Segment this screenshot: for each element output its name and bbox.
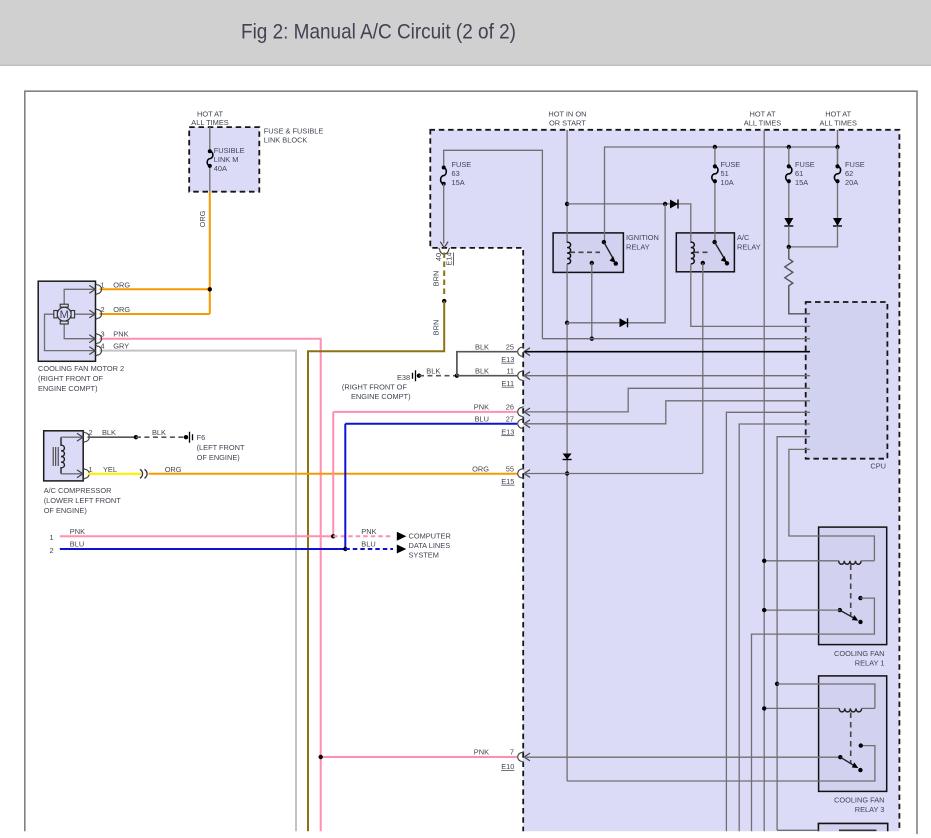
junction diode row — [663, 202, 667, 206]
ignition relay box — [553, 233, 623, 273]
svg-text:OF ENGINE): OF ENGINE) — [44, 506, 87, 515]
svg-text:51: 51 — [721, 169, 729, 178]
svg-text:COOLING FAN: COOLING FAN — [834, 796, 885, 805]
wire GRY pin4 — [100, 351, 297, 832]
svg-text:ORG: ORG — [113, 280, 130, 289]
arrow PNK — [397, 532, 407, 541]
wire relay3 contact bottom — [567, 746, 875, 781]
svg-text:HOT AT: HOT AT — [825, 110, 851, 119]
relay3 switch — [838, 755, 842, 759]
junction PNK 7 — [319, 755, 323, 759]
header bar — [0, 0, 931, 66]
wire PNK7 inside to relay3 — [525, 756, 841, 758]
svg-text:FUSIBLE: FUSIBLE — [214, 146, 245, 155]
svg-text:20A: 20A — [845, 178, 858, 187]
svg-text:E13: E13 — [501, 427, 514, 436]
relay3 coil row — [764, 707, 839, 709]
junction BRN — [442, 299, 446, 303]
junction ORG/diode — [565, 471, 569, 475]
svg-text:10A: 10A — [721, 178, 734, 187]
relay3 link dashed — [850, 713, 852, 765]
wire HOT AT #1 long vertical — [763, 130, 765, 832]
diode D2 — [620, 318, 628, 327]
junction BLK — [134, 435, 138, 439]
svg-text:55: 55 — [506, 464, 514, 473]
svg-text:E38: E38 — [397, 373, 410, 382]
power distribution box (big lavender) fill — [430, 130, 899, 832]
svg-text:2: 2 — [89, 428, 93, 437]
svg-text:ALL TIMES: ALL TIMES — [191, 118, 228, 127]
cooling fan relay (bottom, cut) box — [818, 823, 887, 831]
svg-text:LINK BLOCK: LINK BLOCK — [264, 135, 308, 144]
power distribution box dashed border — [430, 129, 900, 831]
svg-text:ENGINE COMPT): ENGINE COMPT) — [351, 392, 411, 401]
junction resistor top — [787, 245, 791, 249]
cooling fan relay 3 box — [819, 676, 887, 792]
svg-text:26: 26 — [506, 403, 514, 412]
svg-text:COMPUTER: COMPUTER — [409, 531, 451, 540]
wire BLU data line — [60, 548, 346, 550]
motor pin connectors — [89, 284, 101, 295]
junction PNK — [331, 534, 335, 538]
svg-text:M: M — [60, 309, 69, 321]
ignition relay link dashed — [570, 251, 600, 253]
wire PNK 7 — [321, 756, 517, 758]
wire fuse 63 to E14 — [443, 184, 445, 244]
svg-text:BLU: BLU — [361, 540, 375, 549]
wire BLU vertical from connector 27 — [344, 424, 346, 549]
svg-text:15A: 15A — [795, 178, 808, 187]
diode D5 — [563, 454, 572, 460]
svg-text:ORG: ORG — [113, 305, 130, 314]
relay (bottom) frame wire — [777, 829, 818, 831]
wire fuse63 row to CPU — [542, 338, 810, 340]
svg-text:15A: 15A — [452, 178, 465, 187]
svg-text:40A: 40A — [214, 164, 227, 173]
fuse 63 symbol — [441, 168, 447, 184]
svg-text:(LOWER LEFT FRONT: (LOWER LEFT FRONT — [44, 496, 122, 505]
wire BLK dashed — [136, 436, 184, 438]
wire CPU pin8 down — [726, 412, 810, 831]
svg-text:1: 1 — [50, 533, 54, 542]
compressor internal wires — [61, 437, 83, 474]
wire YEL — [88, 473, 142, 475]
diode row y323 — [565, 321, 569, 325]
svg-text:E13: E13 — [501, 355, 514, 364]
wire into fusible link — [209, 127, 211, 192]
motor symbol M — [57, 307, 71, 321]
wire CPU pin10 down (relay3 frame) — [777, 437, 810, 831]
svg-text:BRN: BRN — [432, 320, 441, 336]
relay3 frame — [775, 682, 779, 686]
fuse 63 loop wire — [444, 150, 543, 338]
svg-text:LINK M: LINK M — [214, 155, 239, 164]
wire hot-at row y147 — [605, 147, 838, 242]
relay1 contact output — [752, 598, 875, 831]
svg-text:PNK: PNK — [70, 527, 85, 536]
wire BLK 25 outside — [457, 352, 517, 376]
svg-text:IGNITION: IGNITION — [626, 233, 659, 242]
motor internal wires — [45, 289, 96, 350]
fusible link M symbol — [207, 151, 213, 166]
cooling fan motor 2 box — [38, 281, 95, 361]
compressor pin connectors — [77, 432, 89, 443]
wire HOT AT #2 drop — [837, 130, 839, 164]
svg-text:25: 25 — [506, 343, 514, 352]
svg-text:FUSE & FUSIBLE: FUSE & FUSIBLE — [264, 126, 324, 135]
inline connector YEL/ORG — [140, 469, 147, 478]
svg-text:RELAY: RELAY — [737, 243, 761, 252]
wire relay feed row y204 — [567, 204, 691, 243]
svg-text:1: 1 — [89, 465, 93, 474]
diode D1 — [670, 200, 678, 209]
svg-text:RELAY: RELAY — [626, 243, 650, 252]
wire BRN dashed segment — [443, 253, 445, 296]
svg-text:PNK: PNK — [474, 403, 489, 412]
wire CPU pin9 down — [739, 424, 810, 831]
arrow BLU — [397, 545, 407, 554]
CPU box — [806, 302, 888, 459]
fuse 51 — [714, 147, 716, 242]
svg-text:62: 62 — [845, 169, 853, 178]
ignition relay switch — [602, 240, 606, 244]
junction ORG — [208, 287, 212, 291]
a/c relay switch — [712, 240, 716, 244]
junction BLU — [343, 547, 347, 551]
svg-text:BRN: BRN — [432, 271, 441, 287]
relay1 coil row — [764, 560, 839, 562]
svg-text:FUSE: FUSE — [452, 160, 472, 169]
svg-text:E11: E11 — [501, 379, 514, 388]
diode D3 (fuse 61) — [784, 218, 793, 226]
wire BLU27 inside to CPU — [525, 401, 811, 424]
wire BLK 11 inside — [525, 375, 811, 377]
wire HOT IN ON vertical — [566, 130, 568, 243]
svg-text:BLK: BLK — [426, 367, 440, 376]
connector E14 — [439, 242, 450, 254]
junction E38/BLK — [455, 374, 459, 378]
svg-text:ENGINE COMPT): ENGINE COMPT) — [38, 384, 98, 393]
svg-text:PNK: PNK — [113, 330, 128, 339]
svg-text:(RIGHT FRONT OF: (RIGHT FRONT OF — [342, 382, 407, 391]
wire BLK dashed E38 — [419, 375, 457, 377]
wire a/c contact down to ORG row — [702, 263, 704, 474]
svg-text:RELAY 1: RELAY 1 — [855, 659, 885, 668]
svg-text:ORG: ORG — [165, 465, 182, 474]
svg-text:OF ENGINE): OF ENGINE) — [197, 453, 240, 462]
wire CPU pin11 down (relay1 frame) — [789, 449, 875, 560]
wire BLK to E11 — [457, 375, 517, 377]
resistor — [785, 247, 810, 314]
svg-text:SYSTEM: SYSTEM — [409, 551, 439, 560]
fuse 62 — [837, 147, 839, 218]
fuse 61 — [788, 147, 790, 218]
svg-text:FUSE: FUSE — [845, 160, 865, 169]
svg-text:PNK: PNK — [361, 527, 376, 536]
a/c relay link dashed — [694, 251, 711, 253]
wire BLK 25 inside — [525, 351, 811, 353]
svg-text:RELAY 3: RELAY 3 — [855, 805, 885, 814]
svg-text:DATA LINES: DATA LINES — [409, 541, 451, 550]
a/c relay coil — [691, 242, 695, 264]
svg-text:HOT IN ON: HOT IN ON — [548, 110, 586, 119]
svg-text:2: 2 — [50, 546, 54, 555]
svg-text:E14: E14 — [445, 252, 454, 265]
junction HOT IN ON — [565, 202, 569, 206]
svg-text:FUSE: FUSE — [795, 160, 815, 169]
svg-text:FUSE: FUSE — [721, 160, 741, 169]
svg-text:BLU: BLU — [475, 415, 489, 424]
wire BLU 27 — [345, 423, 517, 425]
svg-text:61: 61 — [795, 169, 803, 178]
svg-text:63: 63 — [452, 169, 460, 178]
relay1 link dashed — [850, 565, 852, 617]
cooling fan relay 1 box — [819, 527, 887, 645]
wire a/c coil bottom to CPU — [691, 264, 810, 326]
svg-text:COOLING FAN: COOLING FAN — [834, 649, 885, 658]
wire BLU dashed — [345, 548, 393, 550]
relay1 pivot feed — [764, 609, 840, 611]
svg-text:ALL TIMES: ALL TIMES — [820, 119, 857, 128]
svg-text:40: 40 — [434, 253, 443, 261]
svg-text:11: 11 — [506, 367, 514, 376]
compressor coil core bars — [53, 447, 58, 466]
svg-text:ALL TIMES: ALL TIMES — [744, 119, 781, 128]
svg-text:HOT AT: HOT AT — [749, 110, 775, 119]
svg-text:ORG: ORG — [472, 464, 489, 473]
svg-text:CPU: CPU — [870, 462, 886, 471]
wire PNK dashed — [333, 535, 393, 537]
svg-text:F6: F6 — [197, 433, 206, 442]
a/c compressor box — [44, 431, 83, 481]
svg-text:BLK: BLK — [102, 428, 116, 437]
compressor clutch coil — [61, 437, 64, 474]
ignition relay coil — [567, 242, 571, 264]
svg-text:BLK: BLK — [475, 343, 489, 352]
a/c relay box — [676, 233, 734, 272]
wire ignition coil to ORG junction (via diode D5) — [566, 323, 568, 781]
wire ignition coil bottom — [566, 264, 568, 323]
svg-text:YEL: YEL — [103, 465, 117, 474]
svg-text:E10: E10 — [501, 762, 514, 771]
svg-text:COOLING FAN MOTOR 2: COOLING FAN MOTOR 2 — [38, 364, 124, 373]
svg-text:Fig 2: Manual A/C Circuit (2 o: Fig 2: Manual A/C Circuit (2 of 2) — [241, 21, 516, 44]
svg-text:BLK: BLK — [152, 428, 166, 437]
svg-text:A/C COMPRESSOR: A/C COMPRESSOR — [44, 486, 112, 495]
svg-text:(LEFT FRONT: (LEFT FRONT — [197, 443, 245, 452]
wire ORG55 inside to a/c contact — [525, 473, 703, 475]
svg-text:OR START: OR START — [549, 119, 586, 128]
wire ORG to E15 — [149, 473, 518, 475]
wire PNK vertical from connector 26 — [332, 412, 334, 536]
svg-text:PNK: PNK — [474, 747, 489, 756]
svg-text:27: 27 — [506, 415, 514, 424]
wire PNK 26 — [333, 411, 517, 413]
diode D4 (fuse 62) — [833, 218, 842, 226]
wire ignition contact down — [591, 263, 593, 339]
svg-text:BLK: BLK — [475, 367, 489, 376]
svg-text:A/C: A/C — [737, 233, 750, 242]
svg-text:7: 7 — [510, 747, 514, 756]
svg-text:BLU: BLU — [70, 540, 84, 549]
connector symbols at box edge — [518, 346, 530, 357]
relay1 switch — [838, 608, 842, 612]
ground F6 symbol — [184, 435, 188, 439]
wire PNK pin3 — [100, 339, 321, 832]
svg-text:ORG: ORG — [198, 210, 207, 227]
svg-text:E15: E15 — [501, 477, 514, 486]
wire BRN solid — [308, 301, 444, 831]
wire PNK26 inside to CPU — [525, 388, 811, 412]
wire PNK data line — [60, 535, 333, 537]
junction fuse63 row / ignition contact — [590, 337, 594, 341]
wire BLK solid — [88, 436, 136, 438]
junctions on row y147 — [713, 145, 717, 149]
svg-text:GRY: GRY — [113, 342, 129, 351]
wire ORG from fusible link down — [100, 192, 210, 314]
fuse &amp; fusible link block box — [189, 127, 259, 192]
svg-text:(RIGHT FRONT OF: (RIGHT FRONT OF — [38, 374, 103, 383]
